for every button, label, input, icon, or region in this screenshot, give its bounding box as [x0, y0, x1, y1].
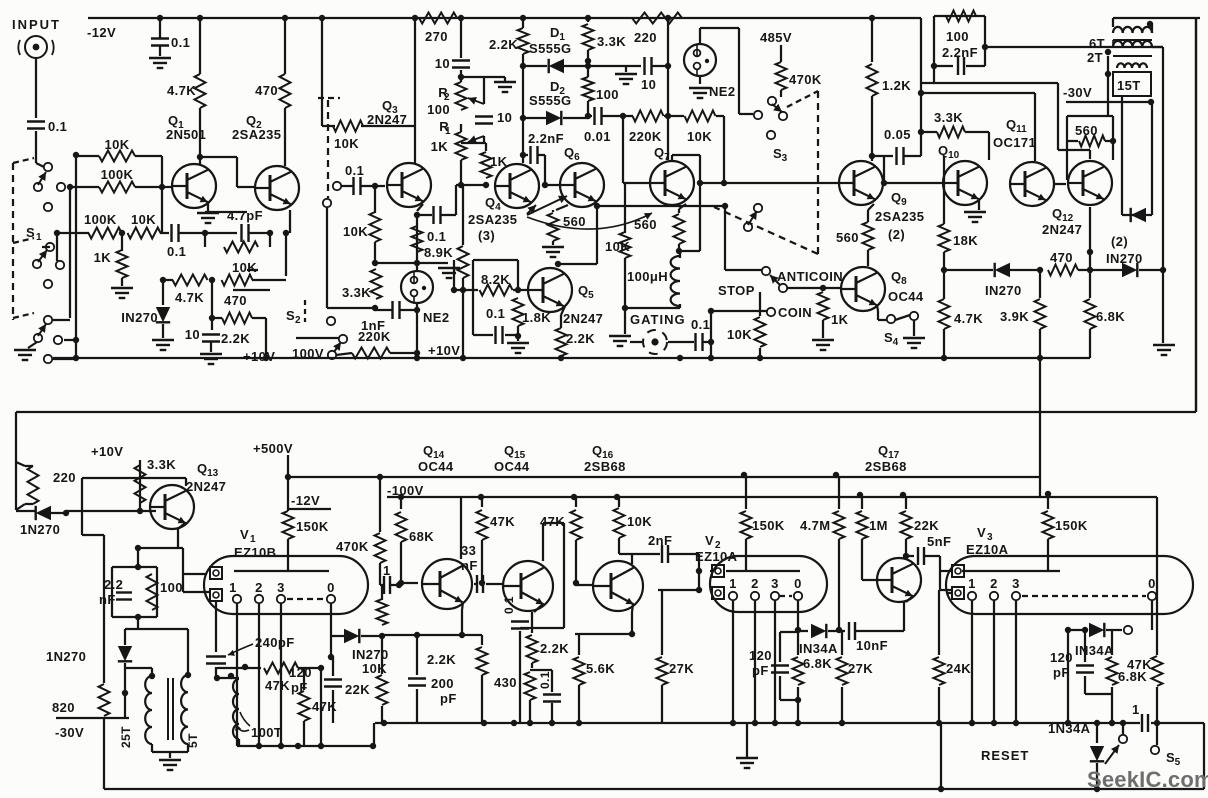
svg-text:560: 560 — [1075, 123, 1098, 138]
svg-text:24K: 24K — [946, 661, 971, 676]
svg-text:4.7K: 4.7K — [954, 311, 983, 326]
svg-text:-12V: -12V — [87, 25, 116, 40]
svg-text:2: 2 — [990, 576, 998, 591]
svg-text:10nF: 10nF — [856, 638, 888, 653]
svg-text:6.8K: 6.8K — [803, 656, 832, 671]
svg-text:0.01: 0.01 — [584, 129, 611, 144]
svg-text:560: 560 — [836, 230, 859, 245]
svg-text:1K: 1K — [431, 139, 449, 154]
svg-text:1: 1 — [229, 580, 237, 595]
svg-text:(3): (3) — [478, 228, 495, 243]
svg-text:10: 10 — [497, 110, 512, 125]
svg-text:485V: 485V — [760, 30, 792, 45]
svg-text:0.1: 0.1 — [167, 244, 186, 259]
svg-text:8.2K: 8.2K — [481, 272, 510, 287]
svg-text:150K: 150K — [296, 519, 329, 534]
svg-text:+10V: +10V — [428, 343, 460, 358]
svg-text:OC44: OC44 — [888, 289, 924, 304]
svg-text:-30V: -30V — [55, 725, 84, 740]
svg-text:1: 1 — [729, 576, 737, 591]
svg-text:2: 2 — [295, 315, 301, 326]
svg-text:10K: 10K — [334, 136, 359, 151]
svg-text:COIN: COIN — [778, 305, 812, 320]
svg-text:10K: 10K — [627, 514, 652, 529]
svg-text:-12V: -12V — [291, 493, 320, 508]
svg-text:470K: 470K — [336, 539, 369, 554]
svg-text:4.7M: 4.7M — [800, 518, 831, 533]
svg-text:2: 2 — [751, 576, 759, 591]
svg-text:GATING: GATING — [630, 312, 686, 327]
svg-text:100μH: 100μH — [627, 269, 668, 284]
svg-text:120: 120 — [749, 648, 772, 663]
svg-text:150K: 150K — [752, 518, 785, 533]
svg-text:INPUT: INPUT — [12, 17, 61, 32]
svg-text:240pF: 240pF — [255, 635, 295, 650]
svg-text:15T: 15T — [1117, 78, 1141, 93]
svg-text:200: 200 — [431, 676, 454, 691]
svg-text:3.3K: 3.3K — [147, 457, 176, 472]
svg-text:0.1: 0.1 — [486, 306, 505, 321]
svg-text:1K: 1K — [831, 312, 849, 327]
svg-text:nF: nF — [99, 592, 116, 607]
svg-text:0.1: 0.1 — [427, 229, 446, 244]
svg-text:0.1: 0.1 — [502, 596, 516, 614]
svg-text:V: V — [240, 527, 249, 542]
svg-text:22K: 22K — [914, 518, 939, 533]
svg-text:10K: 10K — [343, 224, 368, 239]
svg-text:IN270: IN270 — [985, 283, 1022, 298]
svg-text:S555G: S555G — [529, 41, 571, 56]
svg-text:1: 1 — [445, 126, 451, 137]
svg-text:2N247: 2N247 — [563, 311, 603, 326]
svg-text:100: 100 — [427, 102, 450, 117]
svg-text:NE2: NE2 — [709, 84, 736, 99]
svg-text:10: 10 — [185, 327, 200, 342]
svg-text:2.2nF: 2.2nF — [942, 45, 978, 60]
svg-text:2: 2 — [255, 580, 263, 595]
svg-text:2N247: 2N247 — [186, 479, 226, 494]
svg-text:pF: pF — [1053, 665, 1070, 680]
svg-text:1: 1 — [383, 563, 391, 578]
svg-text:3.3K: 3.3K — [934, 110, 963, 125]
svg-text:33: 33 — [461, 543, 476, 558]
svg-text:4.7K: 4.7K — [167, 83, 196, 98]
svg-text:S555G: S555G — [529, 93, 571, 108]
svg-text:220: 220 — [53, 470, 76, 485]
svg-text:0: 0 — [327, 580, 335, 595]
svg-text:2.2: 2.2 — [104, 577, 123, 592]
svg-text:1N34A: 1N34A — [1048, 721, 1091, 736]
svg-text:+500V: +500V — [253, 441, 293, 456]
svg-text:2SA235: 2SA235 — [875, 209, 924, 224]
svg-text:IN34A: IN34A — [799, 641, 838, 656]
svg-text:8.9K: 8.9K — [424, 245, 453, 260]
svg-text:2SB68: 2SB68 — [584, 459, 626, 474]
svg-text:0.05: 0.05 — [884, 127, 911, 142]
svg-text:2.2K: 2.2K — [489, 37, 518, 52]
svg-text:10K: 10K — [362, 661, 387, 676]
svg-text:220K: 220K — [629, 129, 662, 144]
svg-text:820: 820 — [52, 700, 75, 715]
svg-text:-30V: -30V — [1063, 85, 1092, 100]
svg-text:2nF: 2nF — [648, 533, 672, 548]
svg-text:EZ10B: EZ10B — [234, 545, 276, 560]
svg-text:560: 560 — [563, 214, 586, 229]
svg-text:IN34A: IN34A — [1075, 643, 1114, 658]
svg-text:1M: 1M — [869, 518, 888, 533]
svg-text:470: 470 — [255, 83, 278, 98]
svg-text:220: 220 — [634, 30, 657, 45]
svg-text:120: 120 — [289, 665, 312, 680]
svg-text:+10V: +10V — [243, 349, 275, 364]
svg-text:100K: 100K — [101, 167, 134, 182]
svg-text:nF: nF — [461, 558, 478, 573]
svg-text:-100V: -100V — [387, 483, 424, 498]
svg-text:3: 3 — [1012, 576, 1020, 591]
svg-text:0: 0 — [1148, 576, 1156, 591]
svg-text:10: 10 — [435, 56, 450, 71]
svg-text:470: 470 — [1050, 250, 1073, 265]
svg-text:EZ10A: EZ10A — [695, 549, 738, 564]
svg-text:2T: 2T — [1087, 50, 1103, 65]
svg-text:+10V: +10V — [91, 444, 123, 459]
svg-text:0.1: 0.1 — [691, 317, 710, 332]
svg-text:SeekIC.com: SeekIC.com — [1087, 767, 1208, 792]
svg-text:EZ10A: EZ10A — [966, 542, 1009, 557]
svg-text:2.2K: 2.2K — [540, 641, 569, 656]
svg-text:pF: pF — [291, 680, 308, 695]
svg-text:1.8K: 1.8K — [522, 310, 551, 325]
svg-text:2SA235: 2SA235 — [468, 212, 517, 227]
svg-text:22K: 22K — [345, 682, 370, 697]
svg-text:470: 470 — [224, 293, 247, 308]
svg-text:10K: 10K — [104, 137, 129, 152]
svg-text:4.7pF: 4.7pF — [227, 208, 263, 223]
svg-text:100T: 100T — [251, 725, 282, 740]
svg-text:470K: 470K — [789, 72, 822, 87]
svg-text:OC44: OC44 — [494, 459, 530, 474]
svg-text:1nF: 1nF — [361, 318, 385, 333]
svg-text:10K: 10K — [687, 129, 712, 144]
svg-text:2.2K: 2.2K — [566, 331, 595, 346]
svg-text:100K: 100K — [84, 212, 117, 227]
svg-text:ANTICOIN: ANTICOIN — [777, 269, 843, 284]
svg-text:2N247: 2N247 — [367, 112, 407, 127]
svg-text:2.2K: 2.2K — [221, 331, 250, 346]
svg-text:0.1: 0.1 — [538, 671, 552, 689]
svg-text:1: 1 — [1132, 702, 1140, 717]
svg-text:2N501: 2N501 — [166, 127, 206, 142]
svg-text:10K: 10K — [131, 212, 156, 227]
svg-text:2.2nF: 2.2nF — [528, 131, 564, 146]
svg-text:4.7K: 4.7K — [175, 290, 204, 305]
svg-text:1.2K: 1.2K — [882, 78, 911, 93]
svg-text:0: 0 — [794, 576, 802, 591]
svg-text:V: V — [705, 533, 714, 548]
svg-text:6.8K: 6.8K — [1118, 669, 1147, 684]
svg-text:3: 3 — [277, 580, 285, 595]
svg-text:1: 1 — [250, 534, 256, 545]
svg-text:270: 270 — [425, 29, 448, 44]
svg-text:(2): (2) — [888, 227, 905, 242]
svg-text:150K: 150K — [1055, 518, 1088, 533]
svg-text:10K: 10K — [605, 239, 630, 254]
svg-text:120: 120 — [1050, 650, 1073, 665]
svg-text:560: 560 — [634, 217, 657, 232]
svg-text:1N270: 1N270 — [20, 522, 60, 537]
svg-text:10K: 10K — [232, 260, 257, 275]
svg-text:430: 430 — [494, 675, 517, 690]
svg-text:RESET: RESET — [981, 748, 1029, 763]
svg-text:2N247: 2N247 — [1042, 222, 1082, 237]
svg-text:5nF: 5nF — [927, 534, 951, 549]
svg-text:2.2K: 2.2K — [427, 652, 456, 667]
svg-text:IN270: IN270 — [121, 310, 158, 325]
svg-text:IN270: IN270 — [352, 647, 389, 662]
svg-text:6.8K: 6.8K — [1096, 309, 1125, 324]
svg-text:100: 100 — [946, 29, 969, 44]
svg-text:0.1: 0.1 — [345, 163, 364, 178]
svg-text:68K: 68K — [409, 529, 434, 544]
svg-text:NE2: NE2 — [423, 310, 450, 325]
svg-text:3.3K: 3.3K — [342, 285, 371, 300]
svg-text:OC171: OC171 — [993, 135, 1036, 150]
svg-text:V: V — [977, 525, 986, 540]
svg-text:pF: pF — [440, 691, 457, 706]
svg-text:1: 1 — [36, 232, 42, 243]
svg-text:0.1: 0.1 — [48, 119, 67, 134]
svg-text:3.3K: 3.3K — [597, 34, 626, 49]
svg-text:1N270: 1N270 — [46, 649, 86, 664]
svg-text:100: 100 — [596, 87, 619, 102]
svg-text:pF: pF — [752, 663, 769, 678]
svg-text:27K: 27K — [669, 661, 694, 676]
svg-text:3.9K: 3.9K — [1000, 309, 1029, 324]
svg-text:100: 100 — [160, 580, 183, 595]
svg-text:27K: 27K — [848, 661, 873, 676]
svg-text:47K: 47K — [265, 678, 290, 693]
svg-text:3: 3 — [771, 576, 779, 591]
svg-text:2SB68: 2SB68 — [865, 459, 907, 474]
svg-text:S: S — [286, 308, 295, 323]
svg-text:25T: 25T — [119, 726, 133, 748]
svg-text:1: 1 — [968, 576, 976, 591]
svg-text:2SA235: 2SA235 — [232, 127, 281, 142]
svg-text:0.1: 0.1 — [171, 35, 190, 50]
svg-text:OC44: OC44 — [418, 459, 454, 474]
svg-text:18K: 18K — [953, 233, 978, 248]
svg-text:6T: 6T — [1089, 36, 1105, 51]
svg-text:1K: 1K — [94, 250, 112, 265]
svg-text:STOP: STOP — [718, 283, 755, 298]
svg-text:5.6K: 5.6K — [586, 661, 615, 676]
svg-text:(2): (2) — [1111, 234, 1128, 249]
svg-text:10: 10 — [641, 77, 656, 92]
svg-text:10K: 10K — [727, 327, 752, 342]
svg-text:IN270: IN270 — [1106, 251, 1143, 266]
svg-text:47K: 47K — [490, 514, 515, 529]
